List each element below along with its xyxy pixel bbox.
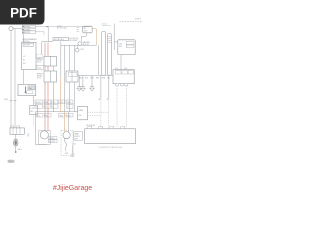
wire: strip feeder xyxy=(97,45,99,75)
wire label box W2 xyxy=(22,28,35,31)
svg-text:S201: S201 xyxy=(4,99,8,101)
lamp label box xyxy=(74,131,83,140)
svg-text:C2b: C2b xyxy=(124,68,127,70)
relay R1 xyxy=(44,56,57,66)
connector box P xyxy=(30,106,38,115)
module box C xyxy=(118,40,135,55)
svg-text:BLOCK 10A: BLOCK 10A xyxy=(57,27,67,30)
svg-text:INT SW: INT SW xyxy=(24,45,30,47)
svg-text:C115: C115 xyxy=(80,49,84,51)
wire: N output right then down xyxy=(92,29,96,46)
svg-text:1 J: 1 J xyxy=(9,161,11,163)
wire: right drop into C xyxy=(114,24,118,51)
pin ticks left of N xyxy=(77,28,80,32)
svg-text:PDF: PDF xyxy=(10,5,37,20)
wire: top-left feed from connector circle xyxy=(13,28,22,30)
PDF badge xyxy=(0,0,45,25)
connector strip A xyxy=(102,31,106,75)
wire label row below bus xyxy=(36,114,43,118)
ground G3 xyxy=(91,75,93,83)
lamp assembly (dashed housing) xyxy=(61,130,73,155)
module box D xyxy=(113,70,134,84)
bottom connector box G xyxy=(10,128,24,134)
wire: J1 to connector P xyxy=(33,96,35,106)
wire: C to D xyxy=(120,55,122,70)
junction box J1 xyxy=(18,85,36,96)
intermittent unit R3 xyxy=(66,71,78,82)
svg-text:WIPER: WIPER xyxy=(74,136,80,138)
svg-text:WHT: WHT xyxy=(91,78,95,80)
svg-text:1 OF 2: 1 OF 2 xyxy=(135,18,142,20)
wire label box W3 xyxy=(22,31,35,34)
wire: mid vertical 1 orange lower xyxy=(60,77,62,112)
svg-text:G402: G402 xyxy=(71,156,75,158)
wire: relay feed rail xyxy=(42,42,53,55)
fuse F1 inside J1 xyxy=(25,87,27,94)
wire: left vertical bus v2 xyxy=(14,29,16,128)
wire: right horizontal rail xyxy=(79,74,114,76)
svg-text:BLU/W: BLU/W xyxy=(36,102,42,104)
wire: orange lamp feeds xyxy=(61,112,65,132)
svg-text:14: 14 xyxy=(36,107,38,109)
wire: red wiper feed 1 xyxy=(44,43,46,57)
svg-text:NO.2: NO.2 xyxy=(37,77,41,79)
wire: drop from U1 to junction box J1 xyxy=(23,70,25,85)
svg-text:18: 18 xyxy=(52,107,54,109)
splice marks on left bus xyxy=(10,100,17,102)
wire: R3 pins down to bus xyxy=(70,82,75,112)
svg-text:16: 16 xyxy=(45,107,47,109)
wire: drop from labels to unit U1 xyxy=(23,34,25,43)
svg-text:MOTOR: MOTOR xyxy=(49,141,56,143)
wire: top feed to relay area xyxy=(35,26,90,28)
wire: gray drop from R2 xyxy=(53,82,55,112)
bulb xyxy=(63,132,70,139)
wire: mid vertical 2 xyxy=(63,45,65,111)
svg-text:GRN/YEL: GRN/YEL xyxy=(23,32,30,34)
svg-text:CONTROL MODULE: CONTROL MODULE xyxy=(99,147,123,149)
inline fuse H xyxy=(15,134,17,139)
svg-text:SWITCH: SWITCH xyxy=(22,41,30,43)
connector label box xyxy=(36,66,43,70)
svg-text:HOT AT ALL: HOT AT ALL xyxy=(54,38,64,41)
wire: red wiper feed 2 xyxy=(47,43,49,57)
wire: mid vertical 1 xyxy=(60,42,62,77)
gray pill label xyxy=(8,160,15,163)
pins of D xyxy=(120,84,123,86)
connector ring on rail xyxy=(76,45,78,48)
ground G2 xyxy=(82,75,84,83)
distribution bus xyxy=(35,111,77,113)
sensor box E xyxy=(78,107,88,120)
ground G1 xyxy=(78,75,80,83)
wire: dashed drops from D xyxy=(116,86,118,127)
svg-text:NO.1: NO.1 xyxy=(37,61,41,63)
wire: right verticals to bottom module xyxy=(100,75,102,98)
svg-text:SW: SW xyxy=(79,115,82,117)
wire: mid feed rail xyxy=(61,44,97,46)
washer pump symbol xyxy=(78,42,82,46)
svg-text:YEL: YEL xyxy=(52,102,55,104)
connector grommet G101 xyxy=(9,27,13,31)
rear module F xyxy=(85,129,136,144)
svg-text:G301: G301 xyxy=(17,149,21,151)
label boxes beside motor xyxy=(48,137,57,140)
wire: dashed below connector P xyxy=(33,115,35,126)
svg-text:B1 B2 B3 B4: B1 B2 B3 B4 xyxy=(87,125,96,127)
svg-text:#JijieGarage: #JijieGarage xyxy=(53,185,92,192)
relay R2 xyxy=(44,71,57,82)
svg-text:C2a: C2a xyxy=(115,68,118,70)
component box N (top middle) xyxy=(83,26,92,33)
svg-text:WIPER: WIPER xyxy=(49,138,55,140)
banner: HOT AT ALL TIMES xyxy=(53,38,68,41)
wire: R3 pins up xyxy=(70,45,75,71)
svg-text:C120: C120 xyxy=(37,68,41,70)
svg-text:21: 21 xyxy=(67,107,69,109)
wire label box W1 xyxy=(22,25,35,28)
svg-text:OR START: OR START xyxy=(69,39,77,42)
svg-text:INT: INT xyxy=(23,63,26,65)
wire: left drop and under-run to motor ground xyxy=(36,112,48,145)
wire: N bottom hook xyxy=(81,33,86,42)
connector strip B xyxy=(108,33,112,75)
svg-text:C210: C210 xyxy=(30,108,34,110)
wire: red drops to motor xyxy=(45,82,48,131)
wiper motor M1 xyxy=(39,131,51,145)
switch S1 (dashed) xyxy=(37,54,43,59)
wire: red links R1-R2 xyxy=(45,66,48,71)
control unit U1 xyxy=(22,42,36,69)
wire label row above bus xyxy=(35,100,43,104)
svg-text:SW: SW xyxy=(119,46,122,48)
svg-text:C1 C2: C1 C2 xyxy=(102,24,107,26)
wire: left vertical bus v1 xyxy=(10,31,12,128)
wire: dashed E outputs xyxy=(88,111,109,113)
